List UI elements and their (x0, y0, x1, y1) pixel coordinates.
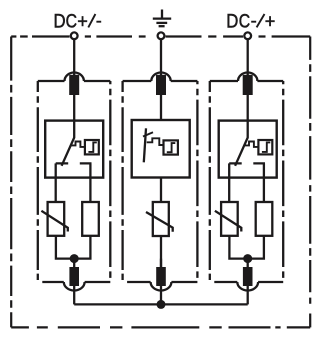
svg-text:C: C (239, 11, 250, 33)
svg-text:+: + (77, 11, 88, 33)
svg-text:D: D (226, 11, 238, 33)
svg-text:C: C (66, 11, 77, 33)
svg-text:+: + (265, 11, 276, 33)
svg-text:D: D (54, 11, 66, 33)
